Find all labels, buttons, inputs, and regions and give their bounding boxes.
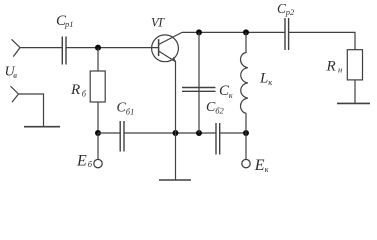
node bottom-left junction (95, 130, 101, 136)
svg-text:в: в (13, 70, 17, 80)
wire Rn to ground (354, 80, 356, 103)
node Ck top junction (196, 29, 202, 35)
inductor Lk (241, 32, 248, 133)
ground left (24, 126, 60, 128)
resistor Rb (90, 71, 105, 102)
label Cp2 (277, 1, 295, 17)
label Ck (219, 83, 234, 100)
svg-text:E: E (76, 152, 87, 169)
svg-text:р1: р1 (64, 19, 74, 29)
svg-text:R: R (70, 82, 80, 98)
wire Ck branch (198, 32, 200, 133)
wire input to Cp1 (20, 47, 63, 49)
input terminal upper pole (12, 39, 21, 56)
ground right (337, 102, 370, 104)
svg-text:б: б (82, 89, 87, 99)
label Rb (70, 82, 87, 99)
svg-text:б2: б2 (215, 105, 224, 115)
node emitter junction (173, 130, 179, 136)
svg-text:к: к (268, 77, 273, 87)
wire bottom rail left (98, 132, 120, 134)
wire base node to Rb (97, 48, 99, 71)
label Cb2 (206, 100, 224, 115)
transistor VT (152, 32, 182, 61)
wire Rb to bottom rail (97, 102, 99, 133)
wire emitter vertical (175, 62, 177, 134)
wire node to Eb terminal (97, 133, 99, 159)
label Lk (259, 71, 273, 88)
terminal Ek (242, 159, 250, 167)
svg-text:б1: б1 (126, 106, 135, 116)
svg-text:к: к (229, 90, 234, 100)
capacitor Cp1 (62, 37, 66, 65)
wire collector top rail (182, 31, 285, 33)
svg-text:б: б (88, 159, 93, 169)
resistor Rn (347, 50, 362, 80)
svg-text:н: н (338, 64, 342, 74)
node base junction (95, 45, 101, 51)
label Ub (5, 65, 18, 81)
svg-text:E: E (254, 157, 265, 174)
input terminal lower pole (11, 86, 19, 102)
label Eb (76, 152, 93, 169)
label VT (151, 16, 165, 30)
capacitor Cb2 (216, 123, 220, 155)
capacitor Ck (182, 88, 216, 92)
wire lower pole to ground (18, 94, 44, 127)
label Ek (254, 157, 270, 174)
capacitor Cp2 (285, 18, 289, 50)
wire node to Ek terminal (245, 133, 247, 159)
ground center (159, 179, 191, 181)
wire Cp1 to transistor base (66, 47, 159, 49)
label Cp1 (56, 13, 74, 29)
wire emitter node to ground (175, 133, 177, 180)
terminal Eb (94, 159, 102, 167)
label Cb1 (117, 101, 135, 117)
wire bottom rail middle (124, 132, 216, 134)
svg-text:р2: р2 (285, 7, 295, 17)
svg-text:к: к (265, 164, 270, 174)
capacitor Cb1 (120, 121, 124, 152)
wire Cp2 to Rn (289, 32, 355, 49)
node Ck bottom junction (196, 130, 202, 136)
node Lk top junction (243, 29, 249, 35)
svg-text:R: R (326, 59, 336, 75)
svg-text:VT: VT (151, 16, 165, 30)
node Lk bottom junction (243, 130, 249, 136)
wire bottom rail right (220, 132, 246, 134)
label Rn (326, 59, 343, 75)
svg-text:L: L (259, 71, 268, 87)
